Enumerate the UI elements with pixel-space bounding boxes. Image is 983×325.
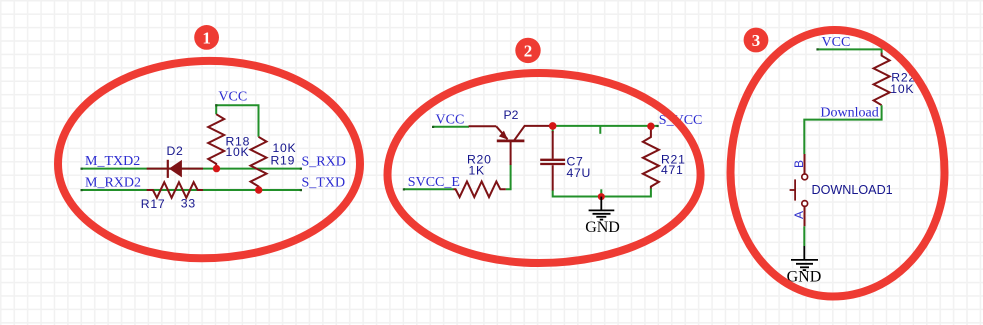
wire stub on top net [599, 126, 601, 134]
annotation badge 3 [744, 28, 769, 53]
svg-text:R17: R17 [141, 197, 166, 211]
transistor P2 emitter arrowhead [499, 131, 508, 140]
diode D2 triangle [169, 160, 182, 178]
svg-text:33: 33 [181, 197, 196, 211]
wire bottom net (C7/GND/R21) [553, 188, 651, 196]
wire R22 to Download corner [804, 105, 881, 154]
wire R20 to P2 base (green corner) [506, 165, 511, 190]
switch DOWNLOAD1 bottom lead [804, 207, 806, 227]
junction dot R21 top [647, 123, 654, 130]
svg-text:VCC: VCC [218, 90, 247, 105]
junction dot GND node [598, 193, 605, 200]
annotation badge 2 [515, 38, 540, 63]
svg-text:VCC: VCC [822, 35, 851, 50]
switch DOWNLOAD1 actuator [790, 179, 796, 200]
svg-text:DOWNLOAD1: DOWNLOAD1 [812, 183, 893, 197]
svg-text:VCC: VCC [436, 113, 465, 128]
switch DOWNLOAD1 pin A circle [802, 201, 808, 207]
svg-text:Download: Download [820, 105, 878, 120]
wire P2 collector node to S_VCC (top horizontal) [553, 125, 658, 127]
transistor P2 collector lead [514, 126, 553, 140]
junction dot at R18 / M_TXD2 [213, 165, 220, 172]
switch DOWNLOAD1 top lead [804, 154, 806, 174]
capacitor C7 plates [540, 159, 565, 161]
svg-text:2: 2 [524, 42, 533, 61]
diode D2 cathode bar [167, 160, 169, 178]
annotation badge 1 [194, 25, 219, 50]
wire VCC to R22 (section 3) [817, 49, 881, 53]
svg-text:M_TXD2: M_TXD2 [85, 154, 140, 169]
svg-text:GND: GND [585, 219, 620, 236]
transistor P2 base bar [497, 139, 525, 142]
resistor R21 (vertical zigzag) [643, 126, 659, 188]
wire end tick section 3 [816, 48, 818, 50]
svg-text:47U: 47U [567, 166, 592, 180]
svg-text:1: 1 [202, 29, 211, 48]
resistor R18 (vertical zigzag) [208, 114, 224, 168]
wire SVCC_E to R20 [404, 188, 454, 190]
svg-text:10K: 10K [226, 145, 250, 159]
svg-text:S_TXD: S_TXD [302, 176, 346, 191]
resistor R22 (vertical zigzag) [874, 53, 890, 105]
svg-text:SVCC_E: SVCC_E [408, 175, 460, 190]
ground symbol GND (section 2) [589, 197, 615, 220]
wire VCC to P2 emitter (section 2) [433, 126, 469, 128]
svg-text:R19: R19 [271, 154, 296, 168]
svg-text:M_RXD2: M_RXD2 [85, 176, 141, 191]
diode D2 leads [147, 168, 203, 170]
svg-text:1K: 1K [469, 164, 485, 178]
annotation ellipse 2 [388, 73, 701, 263]
wire net M_TXD2 / S_RXD (horizontal) [82, 168, 302, 170]
svg-text:471: 471 [661, 163, 684, 177]
wire end ticks section 2 [403, 125, 659, 191]
svg-text:10K: 10K [890, 82, 914, 96]
svg-text:P2: P2 [504, 108, 519, 122]
wire net M_RXD2 / S_TXD (horizontal) [82, 189, 302, 191]
resistor R20 (horizontal zigzag) [454, 182, 506, 198]
wire stub above GND junction [600, 189, 602, 196]
junction dot P2 collector node [549, 122, 557, 130]
annotation ellipse 1 [58, 61, 360, 258]
transistor P2 base lead [510, 142, 512, 165]
svg-text:B: B [792, 160, 806, 168]
capacitor C7 leads [552, 131, 554, 159]
svg-text:S_RXD: S_RXD [302, 154, 346, 169]
resistor R19 (vertical zigzag) [251, 137, 267, 190]
ground symbol GND (section 3) [791, 246, 818, 270]
annotation ellipse 3 [731, 30, 945, 297]
transistor P2 emitter lead with arrow [469, 125, 497, 127]
wire end ticks section 1 [81, 104, 303, 191]
svg-text:3: 3 [752, 31, 761, 50]
wire switch to GND [803, 226, 805, 246]
svg-text:D2: D2 [167, 144, 184, 158]
junction dot at R19 / S_TXD [255, 186, 262, 193]
wire C7 top green stub [552, 126, 554, 133]
switch DOWNLOAD1 pin B circle [802, 174, 808, 180]
resistor R17 (horizontal zigzag) [147, 182, 203, 198]
wire VCC hook (section 1) [216, 105, 258, 137]
